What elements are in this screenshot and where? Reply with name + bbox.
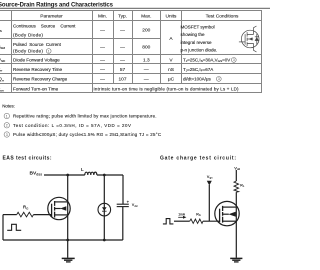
svg-text:(Body Diode): (Body Diode)	[13, 33, 43, 38]
svg-text:showing the: showing the	[181, 32, 206, 37]
svg-text:RG: RG	[196, 213, 201, 218]
mosfet body line	[223, 213, 229, 215]
MOSFET symbol in table (integral body diode)	[239, 26, 259, 52]
drain connection	[247, 26, 256, 34]
svg-text:Reverse Recovery Time: Reverse Recovery Time	[13, 67, 62, 72]
svg-text:Typ.: Typ.	[118, 13, 127, 19]
svg-text:trr: trr	[0, 67, 2, 73]
mosfet Q2 circle	[215, 201, 239, 225]
title rule	[0, 7, 270, 9]
resistor RG zigzag	[17, 212, 34, 217]
ground symbol right	[230, 258, 242, 262]
mosfet body arrow head	[228, 212, 236, 217]
svg-text:integral reverse: integral reverse	[181, 40, 213, 45]
header row	[40, 13, 239, 19]
wire pulse to resistor	[3, 214, 17, 216]
svg-text:Pulsed Source Current: Pulsed Source Current	[13, 42, 62, 47]
capacitor C1 plates	[117, 203, 129, 205]
svg-text:Source-Drain Ratings and Chara: Source-Drain Ratings and Characteristics	[0, 3, 114, 9]
svg-text:Test Conditions: Test Conditions	[206, 13, 239, 19]
svg-text:—: —	[100, 29, 105, 34]
svg-text:1: 1	[6, 114, 8, 118]
wire gate left vertical	[2, 215, 4, 240]
svg-text:—: —	[100, 68, 105, 73]
mosfet source dash	[55, 214, 68, 216]
svg-text:—: —	[144, 68, 149, 73]
svg-text:Units: Units	[166, 13, 178, 19]
svg-text:VSD: VSD	[0, 57, 6, 63]
svg-text:57: 57	[120, 67, 126, 73]
wire resistor to gate	[203, 220, 220, 222]
parameter column	[13, 24, 76, 92]
1mA arrow	[178, 216, 183, 218]
svg-text:—: —	[144, 78, 149, 83]
svg-text:Parameter: Parameter	[40, 13, 63, 19]
mosfet drain dash	[55, 201, 68, 203]
1mA arrow head	[183, 216, 186, 219]
table grid	[0, 11, 262, 93]
ground symbol	[62, 258, 75, 262]
svg-text:RG: RG	[23, 205, 29, 211]
svg-text:200: 200	[142, 28, 150, 34]
min/typ/max values	[100, 28, 151, 83]
test conditions text	[94, 25, 240, 92]
svg-text:Forward Turn-on Time: Forward Turn-on Time	[13, 87, 59, 92]
svg-text:—: —	[100, 78, 105, 83]
diode D1 in circle	[98, 203, 111, 216]
svg-text:Notes:: Notes:	[2, 104, 15, 109]
svg-text:—: —	[100, 46, 105, 51]
Vgs probe arrow head	[207, 181, 212, 186]
svg-text:1: 1	[48, 49, 50, 53]
pulse source glyph	[163, 219, 174, 224]
mosfet Q1 circle	[48, 197, 70, 219]
svg-text:μC: μC	[168, 77, 175, 83]
svg-text:1.3: 1.3	[143, 57, 150, 63]
svg-text:3: 3	[6, 133, 8, 137]
svg-text:Min.: Min.	[98, 13, 107, 19]
inductor L	[85, 172, 97, 175]
wire Vdd down	[235, 170, 237, 181]
svg-text:Gate charge test circuit:: Gate charge test circuit:	[160, 156, 236, 162]
mosfet channel dashes	[222, 206, 224, 223]
ground stem	[67, 240, 69, 258]
bottom wire	[3, 239, 123, 241]
svg-text:107: 107	[118, 77, 126, 83]
resistor RG2 zigzag	[190, 219, 203, 223]
svg-text:MOSFET symbol: MOSFET symbol	[181, 25, 215, 30]
resistor RL zigzag	[234, 181, 239, 192]
svg-text:1mA: 1mA	[178, 212, 186, 216]
mosfet body arrow head	[60, 206, 66, 211]
wire top right	[97, 174, 123, 176]
svg-text:Max.: Max.	[141, 13, 151, 19]
svg-text:Qrr: Qrr	[0, 77, 4, 83]
svg-text:(Body Diode): (Body Diode)	[13, 49, 43, 54]
wire capacitor to bottom	[122, 207, 124, 240]
wire pulse to resistor	[174, 220, 190, 222]
svg-text:Diode Forward Voltage: Diode Forward Voltage	[13, 57, 60, 62]
integral diode	[256, 34, 258, 45]
svg-text:TJ=25C,IS=30A,VGS=0V: TJ=25C,IS=30A,VGS=0V	[183, 57, 230, 63]
mosfet gate bar	[219, 209, 221, 223]
symbol column (left-cropped)	[0, 27, 6, 92]
node BVdss top wire	[44, 174, 85, 176]
svg-text:ISM: ISM	[0, 44, 5, 50]
notes	[2, 104, 161, 137]
svg-text:800: 800	[142, 45, 150, 51]
svg-text:Test condition: L =0.3mH, ID =: Test condition: L =0.3mH, ID = 57A, VDD …	[13, 123, 131, 128]
svg-text:Repetitive rating; pulse width: Repetitive rating; pulse width limited b…	[13, 114, 157, 119]
svg-text:IS: IS	[0, 27, 2, 33]
gate lead	[239, 41, 245, 43]
svg-text:TJ=25C,IF=67A: TJ=25C,IF=67A	[183, 67, 213, 73]
wire resistor to gate	[34, 214, 52, 216]
mosfet gate bar	[51, 204, 53, 217]
svg-text:L: L	[81, 167, 84, 172]
svg-text:ton: ton	[0, 87, 4, 93]
circled note marks in table	[46, 49, 236, 82]
source connection	[247, 44, 256, 53]
mosfet body line	[55, 208, 61, 210]
mosfet drain dash	[223, 206, 237, 208]
wire drain branch	[67, 175, 69, 240]
mosfet source dash	[223, 220, 237, 222]
body arrow	[247, 38, 253, 40]
svg-text:2: 2	[6, 124, 8, 128]
mosfet channel dashes	[54, 201, 56, 218]
units	[168, 36, 175, 83]
pulse source glyph	[7, 224, 21, 230]
junction dots	[66, 174, 69, 177]
Vgs probe arrow wire	[208, 185, 210, 221]
svg-text:—: —	[120, 58, 125, 63]
svg-text:nS: nS	[168, 67, 174, 73]
svg-text:p-n junction diode.: p-n junction diode.	[181, 48, 218, 53]
channel dashes	[246, 32, 248, 46]
svg-text:—: —	[120, 46, 125, 51]
svg-text:3: 3	[218, 77, 220, 81]
wire diode branch	[103, 175, 105, 240]
svg-text:—: —	[120, 29, 125, 34]
svg-text:di/dt=100A/μs: di/dt=100A/μs	[183, 77, 211, 82]
svg-text:3: 3	[233, 58, 235, 62]
wire capacitor branch down	[122, 175, 124, 204]
svg-text:Intrinsic turn-on time is negl: Intrinsic turn-on time is negligible (tu…	[94, 87, 240, 92]
svg-text:—: —	[100, 58, 105, 63]
svg-text:Reverse Recovery Charge: Reverse Recovery Charge	[13, 77, 68, 82]
gate bar	[244, 34, 246, 45]
svg-text:EAS test circuits:: EAS test circuits:	[3, 156, 52, 162]
svg-text:Continuous Source Current: Continuous Source Current	[13, 24, 76, 29]
wire main vertical through mosfet	[235, 192, 237, 258]
svg-text:Pulse width≤300μS; duty cycle≤: Pulse width≤300μS; duty cycle≤1.5% RG = …	[13, 132, 161, 137]
